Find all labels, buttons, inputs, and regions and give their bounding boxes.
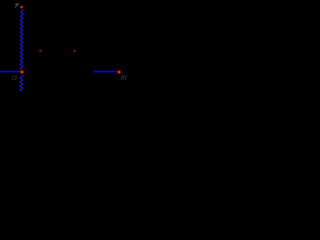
svg-text:f3: f3 bbox=[12, 76, 18, 82]
svg-text:fR: fR bbox=[121, 76, 128, 82]
